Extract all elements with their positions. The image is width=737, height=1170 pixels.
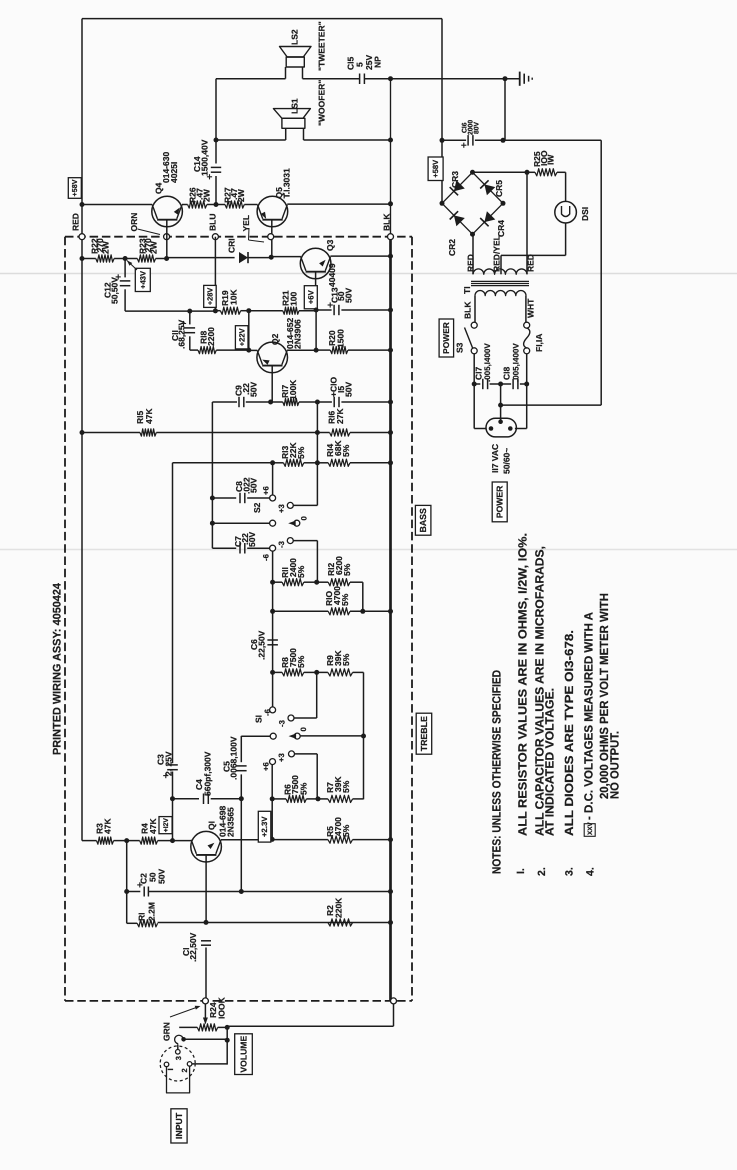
node +2.3V	[270, 837, 275, 842]
svg-text:+58V: +58V	[431, 159, 440, 178]
svg-text:BLK: BLK	[381, 213, 391, 231]
label +43V	[135, 268, 150, 291]
svg-text:2N3906: 2N3906	[293, 319, 303, 349]
svg-text:2.: 2.	[536, 867, 548, 876]
label +28V	[204, 285, 217, 307]
wire C7 row	[212, 547, 236, 549]
wire ground feed	[391, 78, 520, 80]
node rail R15	[80, 430, 85, 435]
connector YEL Q5 base	[268, 234, 274, 240]
jack pin 3	[176, 1050, 181, 1055]
svg-text:Q4: Q4	[154, 182, 164, 194]
svg-text:5%: 5%	[341, 824, 351, 837]
svg-text:ALL RESISTOR VALUES ARE IN OHM: ALL RESISTOR VALUES ARE IN OHMS, I/2W, I…	[516, 533, 530, 836]
resistor R14	[328, 459, 350, 466]
switch S1 contact +6	[270, 759, 276, 765]
wire center neutral down	[500, 384, 502, 420]
svg-text:BLU: BLU	[207, 214, 217, 231]
node C4-C5	[239, 796, 244, 801]
svg-text:II7 VAC: II7 VAC	[490, 444, 500, 473]
wire wiper arrow	[204, 1004, 206, 1019]
svg-text:.68,25V: .68,25V	[177, 319, 187, 349]
label TREBLE	[416, 713, 432, 754]
label POWER plug	[492, 482, 507, 522]
wire Q3 collector to BLK	[330, 255, 390, 257]
svg-text:1500,40V: 1500,40V	[200, 139, 210, 176]
node R6 left	[270, 796, 275, 801]
svg-text:0: 0	[300, 516, 309, 521]
svg-text:NO OUTPUT.: NO OUTPUT.	[608, 731, 622, 799]
wire tweeter row	[216, 78, 286, 80]
wire bridge right RED via R25 node	[526, 172, 528, 274]
node Q1 base	[170, 838, 175, 843]
svg-text:RED/YEL: RED/YEL	[491, 235, 501, 272]
svg-text:-6: -6	[261, 553, 270, 561]
svg-text:"WOOFER": "WOOFER"	[316, 80, 326, 126]
node C3-C4	[170, 796, 175, 801]
svg-text:.005,I400V: .005,I400V	[483, 343, 492, 382]
svg-text:LS2: LS2	[289, 29, 299, 45]
svg-text:TREBLE: TREBLE	[419, 716, 429, 751]
ground	[519, 72, 521, 86]
resistor R10	[328, 608, 350, 615]
wire BLU output vertical with C14	[215, 79, 217, 164]
svg-text:50V: 50V	[343, 288, 353, 303]
resistor R21	[283, 307, 299, 314]
capacitor C4	[203, 794, 205, 805]
connector GRN volume wiper	[202, 998, 208, 1004]
node R15-R16 center	[315, 430, 320, 435]
node jack tie	[225, 1038, 230, 1043]
node R3-R4	[124, 838, 129, 843]
resistor R6	[286, 795, 306, 802]
wire C10 junction down	[316, 402, 318, 505]
input jack	[160, 1046, 195, 1081]
switch S1 contact -3	[288, 715, 294, 721]
svg-text:220K: 220K	[333, 897, 343, 918]
wire C1 down to connector	[205, 948, 207, 999]
node R13 left	[270, 460, 275, 465]
resistor R17	[283, 398, 299, 405]
paper crease lines	[0, 273, 737, 275]
wire S2 +3 link	[293, 504, 318, 506]
wire row C2	[127, 891, 141, 893]
switch S1 wiper	[270, 733, 276, 739]
svg-text:+3: +3	[277, 503, 286, 513]
svg-text:- D.C. VOLTAGES MEASURED WITH: - D.C. VOLTAGES MEASURED WITH A	[582, 612, 596, 820]
capacitor C8	[239, 493, 241, 503]
svg-text:RI: RI	[136, 913, 146, 922]
svg-text:S2: S2	[252, 502, 262, 513]
node R24 right	[225, 1025, 230, 1030]
svg-text:+2.3V: +2.3V	[260, 816, 269, 837]
svg-text:1500: 1500	[336, 329, 346, 348]
svg-text:5%: 5%	[342, 563, 352, 576]
svg-text:47K: 47K	[102, 818, 112, 834]
capacitor C18	[501, 383, 512, 385]
connector BLU	[212, 234, 218, 240]
svg-text:RED: RED	[465, 254, 475, 272]
wire Q4 base vertical	[166, 220, 168, 259]
capacitor C15	[359, 74, 361, 85]
svg-text:80V: 80V	[474, 121, 481, 134]
svg-text:CI7: CI7	[473, 367, 483, 381]
wire R12 right down	[362, 582, 364, 611]
wire R13 row left	[173, 462, 273, 464]
fuse F1	[524, 322, 530, 328]
capacitor C16	[467, 135, 469, 146]
wire DS1 to center tap	[501, 254, 566, 256]
wire S2 wiper row	[212, 522, 270, 524]
node R10 left	[270, 609, 275, 614]
wire +58V top rail	[82, 18, 442, 20]
svg-text:50V: 50V	[156, 869, 166, 884]
svg-text:RED: RED	[525, 254, 535, 272]
wire C8 row	[212, 497, 236, 499]
svg-text:ALL DIODES ARE TYPE OI3-678.: ALL DIODES ARE TYPE OI3-678.	[562, 630, 576, 836]
wire Q3 emitter continues	[315, 310, 317, 350]
wire feedback bus down-left	[172, 463, 174, 763]
svg-text:FI,IA: FI,IA	[534, 334, 544, 352]
svg-text:50V: 50V	[249, 382, 259, 397]
svg-text:DSI: DSI	[580, 207, 590, 221]
svg-text:CR2: CR2	[447, 239, 457, 256]
node ground stub	[503, 76, 508, 81]
resistor R9	[328, 669, 353, 676]
node Q4 base	[164, 256, 169, 261]
node Q2 emitter row	[268, 400, 273, 405]
wire right rail to bridge	[441, 19, 443, 204]
switch S2 contact +3	[287, 502, 293, 508]
wire Q5 base	[271, 220, 273, 257]
AC plug	[486, 418, 516, 437]
wire Q1 emitter	[205, 855, 207, 923]
svg-text:10K: 10K	[228, 289, 238, 305]
pilot lamp DS1	[565, 172, 567, 201]
svg-text:BLK: BLK	[462, 301, 472, 319]
wire Q2 collector	[287, 349, 316, 351]
switch S2 wiper	[270, 520, 276, 526]
svg-text:+28V: +28V	[206, 288, 215, 306]
jack keyway bracket	[167, 1066, 190, 1093]
wire C4 row	[173, 798, 200, 800]
svg-text:XXV: XXV	[587, 821, 594, 835]
potentiometer R24	[197, 1024, 217, 1031]
svg-text:CR4: CR4	[496, 220, 506, 237]
svg-text:5%: 5%	[340, 593, 350, 606]
wire S2 -6 down	[272, 551, 274, 708]
transistor Q3	[300, 248, 331, 279]
diode CR1	[239, 252, 248, 263]
svg-text:POWER: POWER	[441, 322, 451, 354]
node tweeter-BLK	[388, 76, 393, 81]
wire plug left to S3 side	[474, 428, 486, 430]
node C17-C18	[498, 382, 503, 387]
svg-text:560pf,300V: 560pf,300V	[202, 751, 212, 796]
svg-text:2W: 2W	[236, 188, 246, 202]
svg-text:2W: 2W	[201, 188, 211, 202]
svg-text:WHT: WHT	[526, 298, 536, 318]
wire C3 to Q1 base	[172, 772, 174, 841]
resistor R20	[330, 347, 348, 354]
wire S2 -3 link	[293, 540, 318, 542]
switch S1 contact -6	[270, 707, 276, 713]
label +2.3V	[258, 811, 271, 842]
svg-text:+58V: +58V	[70, 179, 79, 196]
wire R13 junction to S2+6	[272, 463, 274, 496]
wire +58V left rail RED	[81, 19, 83, 841]
svg-text:CR5: CR5	[494, 180, 504, 197]
resistor R7	[328, 795, 353, 802]
svg-text:POWER: POWER	[495, 485, 505, 518]
wire Q4 collector to R26	[182, 204, 188, 206]
wire S3 to C17 node	[473, 354, 475, 385]
wire C16 row	[442, 139, 466, 141]
svg-text:TI: TI	[462, 286, 472, 294]
wire C12 bottom to +28V node	[125, 310, 215, 312]
capacitor C7	[239, 543, 241, 554]
svg-text:50,50V: 50,50V	[110, 277, 120, 304]
svg-text:+3: +3	[277, 752, 286, 762]
resistor R3	[97, 837, 114, 844]
capacitor C17	[474, 383, 480, 385]
svg-text:SI: SI	[253, 715, 263, 723]
svg-text:5%: 5%	[341, 444, 351, 457]
switch S2 contact -6	[270, 545, 276, 551]
wire plug right to fuse side	[515, 428, 527, 430]
transformer core	[471, 280, 529, 282]
label POWER switch	[439, 319, 454, 357]
svg-text:I.: I.	[515, 868, 527, 874]
svg-text:40409: 40409	[327, 263, 337, 287]
jack pin 1	[164, 1062, 169, 1067]
svg-text:+6: +6	[261, 485, 270, 495]
svg-text:2.2M: 2.2M	[147, 902, 157, 921]
resistor R25	[535, 169, 557, 176]
svg-text:-3: -3	[277, 540, 286, 548]
node C18 right	[524, 382, 529, 387]
svg-text:Q2: Q2	[270, 333, 280, 345]
svg-text:3.: 3.	[564, 867, 576, 876]
switch S2 contact +6	[270, 495, 276, 501]
node R22 rail	[80, 256, 85, 261]
wire Q4 emitter row	[82, 204, 152, 206]
bridge corner nodes	[470, 170, 475, 175]
svg-text:50V: 50V	[247, 532, 257, 547]
resistor R2	[328, 919, 353, 926]
svg-text:4025I: 4025I	[169, 162, 179, 183]
capacitor C11 branch	[189, 311, 191, 324]
capacitor C14	[211, 166, 221, 168]
svg-text:CRI: CRI	[227, 238, 237, 253]
label +58V supply	[428, 157, 443, 181]
svg-text:RED: RED	[70, 213, 80, 231]
svg-text:0: 0	[299, 727, 308, 732]
diode CR3	[454, 180, 465, 191]
svg-text:INPUT: INPUT	[174, 1112, 184, 1139]
svg-text:-6: -6	[263, 708, 272, 716]
wire BLK bus	[390, 79, 392, 237]
label BASS	[415, 505, 431, 535]
wire S1 -3 link	[294, 717, 317, 719]
node R8-R9	[314, 670, 319, 675]
capacitor C10	[317, 401, 332, 403]
svg-text:+6V: +6V	[307, 289, 316, 304]
wire woofer row	[216, 139, 286, 141]
svg-text:50V: 50V	[249, 478, 259, 493]
capacitor C2	[143, 887, 145, 897]
node woofer-BLK	[388, 138, 393, 143]
label INPUT	[171, 1109, 187, 1143]
node C11 branch	[187, 309, 192, 314]
transistor Q5	[257, 196, 288, 227]
resistor R12	[328, 579, 350, 586]
resistor R1	[137, 920, 157, 927]
svg-text:-3: -3	[278, 719, 287, 727]
svg-text:+I2V: +I2V	[163, 818, 170, 833]
transformer T1 secondary	[473, 269, 527, 274]
svg-text:.005,I400V: .005,I400V	[511, 343, 520, 382]
label +12V	[159, 817, 172, 834]
wire Q3 emitter	[315, 272, 317, 310]
svg-text:IOOK: IOOK	[216, 996, 226, 1019]
resistor R23	[137, 255, 155, 262]
wire C9 row	[212, 401, 237, 403]
wire S1 +3 link	[294, 753, 317, 755]
wire to CR1	[167, 257, 235, 259]
wire to jack shield	[185, 1038, 227, 1040]
wire ground bus to neutral	[501, 404, 602, 406]
node BLU +28V	[213, 308, 218, 313]
wire bridge top to R25	[473, 171, 528, 173]
label +58V board	[68, 178, 81, 199]
jack pin 2	[187, 1062, 192, 1067]
svg-text:2: 2	[180, 1068, 189, 1072]
svg-text:CI8: CI8	[502, 367, 512, 381]
diode CR2	[454, 215, 465, 226]
label VOLUME	[235, 1034, 253, 1075]
svg-text:CR3: CR3	[450, 171, 460, 188]
node +58V C16	[440, 138, 445, 143]
wire ground bus right	[503, 139, 601, 141]
wire C16 to ground	[504, 79, 506, 141]
connector RED	[79, 234, 85, 240]
svg-text:50V: 50V	[343, 382, 353, 397]
svg-text:2W: 2W	[101, 240, 111, 254]
svg-text:.22,50V: .22,50V	[188, 932, 198, 962]
svg-text:50/60~: 50/60~	[501, 448, 511, 474]
switch S2 contact -3	[287, 538, 293, 544]
resistor R26	[188, 201, 207, 208]
node rail-Q4 emitter	[80, 202, 85, 207]
switch S3	[471, 322, 477, 328]
svg-text:5%: 5%	[296, 565, 306, 578]
svg-text:Q3: Q3	[325, 239, 335, 251]
transistor Q1	[191, 831, 222, 862]
svg-text:PRINTED WIRING ASSY: 4050424: PRINTED WIRING ASSY: 4050424	[52, 582, 64, 755]
switch S1 contact +3	[289, 751, 295, 757]
svg-text:"TWEETER": "TWEETER"	[316, 21, 326, 71]
svg-text:.0068,100V: .0068,100V	[229, 736, 239, 780]
capacitor C12 branch	[124, 259, 126, 278]
wire Q2 emitter	[271, 366, 273, 402]
diode CR4	[484, 211, 495, 222]
speaker LS1 woofer	[273, 109, 310, 119]
node Q1 emitter row	[204, 920, 209, 925]
svg-text:100: 100	[289, 292, 299, 306]
resistor R19	[220, 307, 240, 314]
wire Q1 collector row	[221, 839, 272, 841]
svg-text:IW: IW	[546, 154, 556, 165]
wire R3-R4 bus down	[126, 841, 128, 924]
transistor Q4	[152, 196, 183, 227]
resistor R15	[140, 429, 156, 436]
shield wire curl	[175, 1035, 184, 1044]
node +43V	[123, 256, 128, 261]
connector ORN Q4 base	[164, 234, 170, 240]
capacitor C9	[238, 397, 240, 407]
svg-text:2200: 2200	[206, 327, 216, 346]
svg-text:47K: 47K	[144, 408, 154, 424]
svg-text:2W: 2W	[149, 240, 159, 254]
node C16 right	[501, 138, 506, 143]
capacitor C13	[316, 309, 332, 311]
svg-text:NP: NP	[373, 56, 383, 68]
wire jack pin2 out	[192, 1063, 227, 1065]
svg-text:NOTES: UNLESS OTHERWISE SPECIF: NOTES: UNLESS OTHERWISE SPECIFIED	[490, 670, 504, 874]
svg-text:.22,50V: .22,50V	[256, 630, 266, 660]
svg-text:BASS: BASS	[418, 508, 428, 533]
svg-text:ORN: ORN	[129, 213, 139, 232]
node R19-R21	[246, 308, 251, 313]
svg-text:5%: 5%	[298, 782, 308, 795]
resistor R11	[282, 579, 304, 586]
node output BLU	[214, 202, 219, 207]
svg-text:4.: 4.	[585, 867, 597, 876]
svg-text:T.I.3031: T.I.3031	[281, 168, 291, 199]
svg-text:I: I	[166, 1068, 175, 1070]
resistor R8	[282, 669, 304, 676]
wire S1 wiper row	[241, 735, 270, 737]
svg-text:5%: 5%	[341, 780, 351, 793]
resistor R27	[225, 201, 244, 208]
capacitor C1	[201, 940, 211, 942]
svg-text:S3: S3	[454, 342, 464, 353]
node R11 left	[270, 580, 275, 585]
transistor Q2	[249, 349, 258, 351]
wire Q5 collector to BLK	[287, 203, 390, 205]
svg-text:+43V: +43V	[138, 270, 147, 289]
svg-text:AT INDICATED VOLTAGE.: AT INDICATED VOLTAGE.	[543, 688, 557, 836]
svg-text:47K: 47K	[148, 818, 158, 834]
svg-text:QI: QI	[207, 821, 217, 830]
wire bridge left RED	[472, 234, 474, 274]
svg-text:5%: 5%	[341, 653, 351, 666]
svg-text:GRN: GRN	[162, 1022, 172, 1041]
wire C5 vertical	[240, 736, 242, 762]
node R13-R14	[315, 460, 320, 465]
wire primary left BLK lead	[474, 296, 476, 323]
svg-text:+22V: +22V	[237, 327, 246, 346]
resistor R16	[330, 429, 350, 436]
connector BLK	[388, 234, 394, 240]
speaker LS2 tweeter	[280, 47, 312, 58]
node R17-C10	[315, 400, 320, 405]
diode CR5	[484, 184, 495, 195]
svg-text:VOLUME: VOLUME	[238, 1036, 248, 1073]
label +22V	[235, 326, 248, 349]
wire primary right WHT lead	[525, 296, 527, 323]
